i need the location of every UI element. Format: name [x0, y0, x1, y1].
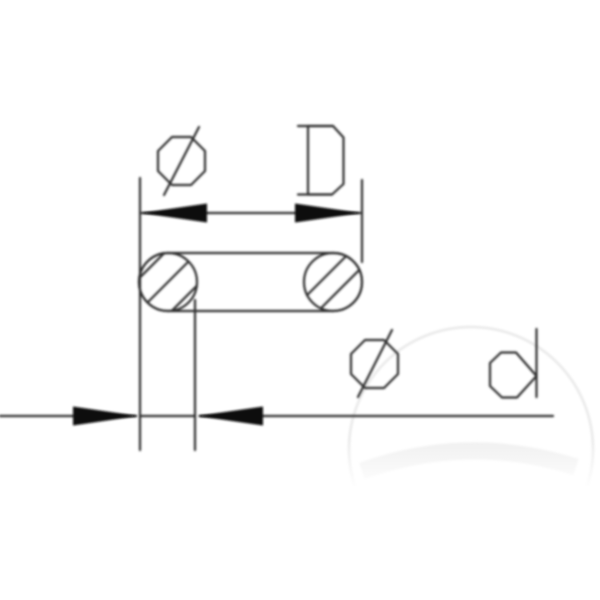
- O-ring right circle: [304, 253, 362, 311]
- O-ring left circle hatch center: [148, 262, 189, 303]
- O-ring left circle: [139, 253, 197, 311]
- O-ring left circle hatch top-left: [139, 253, 164, 278]
- letter D: stem: [307, 126, 309, 195]
- letter D: bowl: [308, 126, 344, 195]
- letter d: bowl: [490, 353, 537, 398]
- diameter symbol lower: slash: [358, 330, 392, 397]
- watermark swoosh: [362, 451, 576, 471]
- O-ring stadium outline: [139, 253, 362, 311]
- bottom dimension line middle: [140, 415, 195, 417]
- letter D: bottom serif: [298, 193, 332, 195]
- top dimension right arrowhead: [295, 204, 361, 223]
- bottom dimension line right: [200, 415, 553, 417]
- watermark circle: [349, 327, 593, 571]
- watermark fade overlay: [330, 440, 600, 490]
- top dimension left arrowhead: [141, 204, 207, 223]
- letter D: top serif: [298, 125, 333, 127]
- bottom dimension left-pointing arrowhead: [197, 407, 263, 426]
- extension line right top (x=362): [361, 180, 363, 262]
- extension line left (x=140): [139, 178, 141, 450]
- diameter symbol lower: octagon: [351, 340, 398, 388]
- O-ring right circle hatch lower: [321, 270, 360, 309]
- O-ring left circle hatch bottom-right: [172, 286, 197, 311]
- O-ring right circle hatch upper: [307, 256, 346, 295]
- top dimension line: [142, 212, 360, 214]
- bottom dimension right-pointing arrowhead: [73, 407, 138, 426]
- bottom dimension line left: [0, 415, 136, 417]
- extension line inner (x=195): [194, 300, 196, 450]
- diameter symbol top-left: slash: [164, 127, 199, 195]
- letter d: stem: [535, 329, 537, 397]
- diameter symbol top-left: octagon: [158, 137, 205, 185]
